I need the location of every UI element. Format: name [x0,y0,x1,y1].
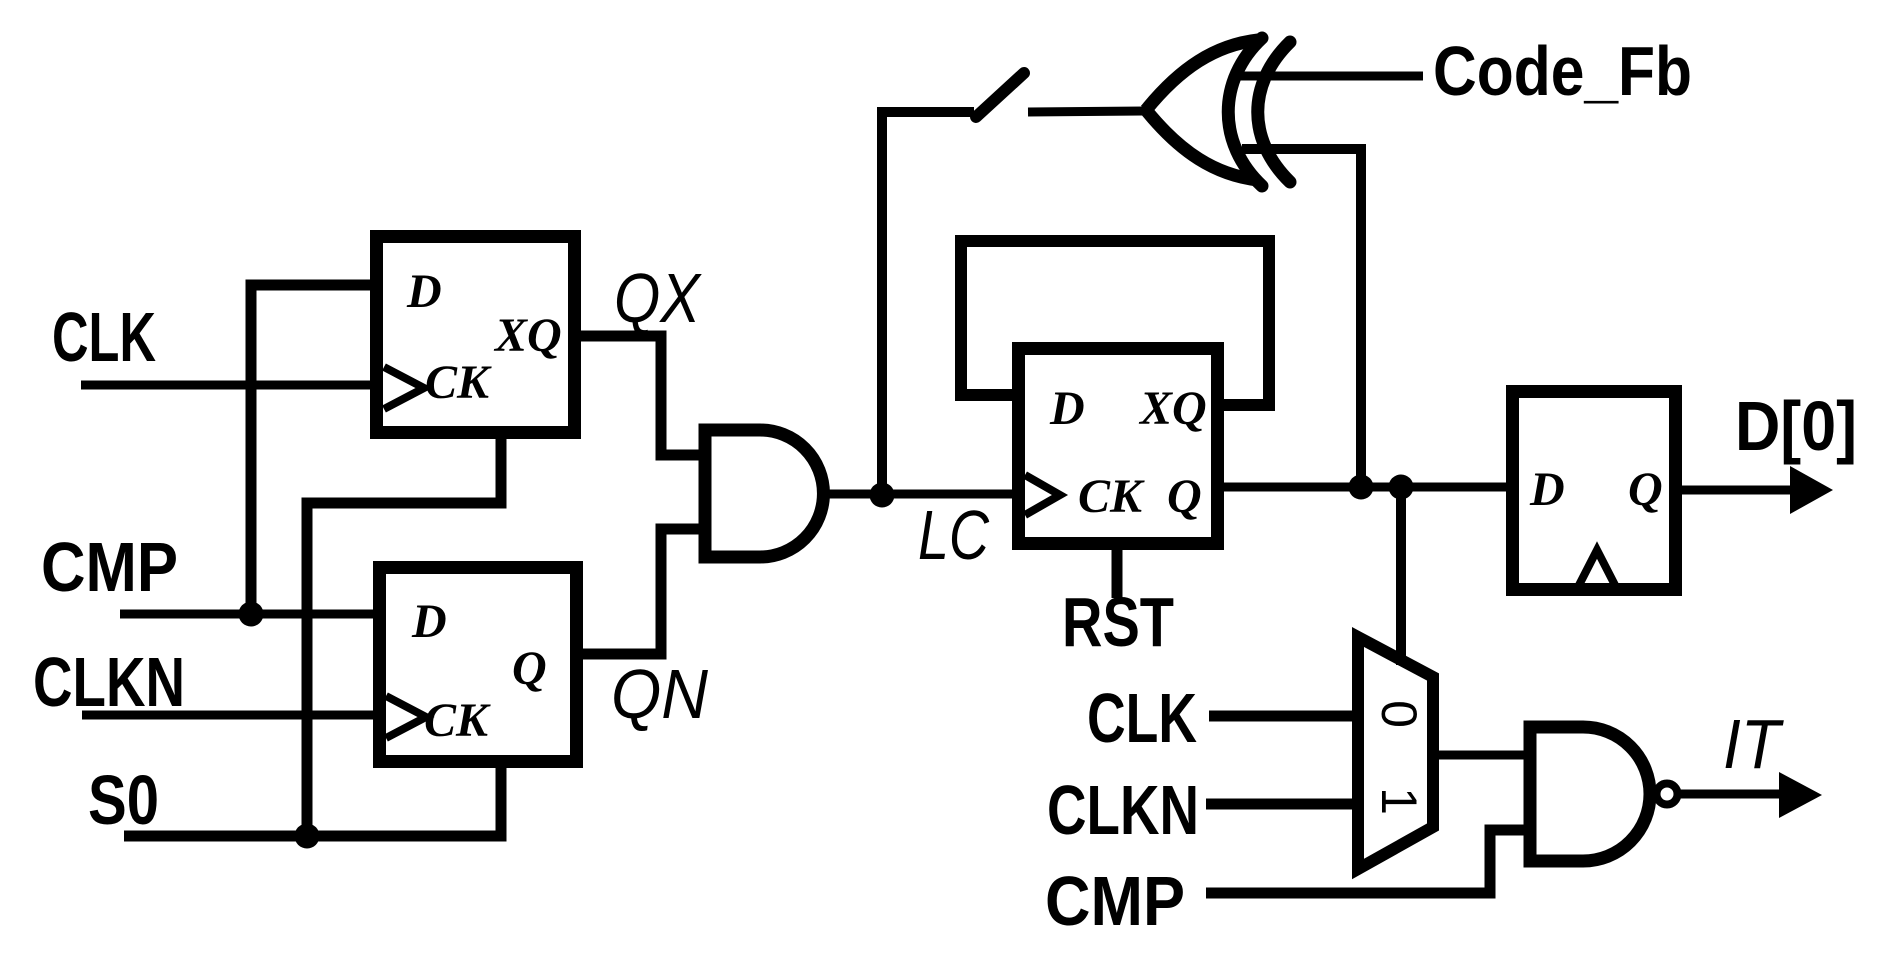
svg-text:CMP: CMP [41,528,178,606]
svg-text:CLKN: CLKN [33,643,185,721]
svg-text:CK: CK [1078,470,1145,523]
wire NAND output [1678,790,1785,799]
wire CMP horizontal to FF2 D [120,610,373,619]
MUX M1 trapezoid [1358,637,1433,869]
svg-text:D: D [406,265,442,318]
wire CLK2 to MUX input 0 [1209,711,1358,722]
wire select from Q node down to MUX [1396,487,1406,665]
svg-text:Code_Fb: Code_Fb [1433,32,1692,110]
flip-flop FF3 clock triangle [1025,475,1060,515]
svg-text:CLKN: CLKN [1047,771,1199,849]
wire QX from FF1 XQ to AND input [581,336,705,455]
svg-text:CLK: CLK [52,298,156,376]
svg-text:D[0]: D[0] [1735,387,1857,465]
svg-text:0: 0 [1371,700,1427,728]
wire CMP branch up to FF1 D [251,285,370,614]
svg-text:XQ: XQ [493,309,562,362]
wire switch to XOR tip [1028,111,1150,112]
svg-text:CMP: CMP [1045,862,1185,940]
junction node Q to XOR [1349,475,1374,500]
wire riser from LC node up to switch [882,112,974,494]
wire MUX output to NAND input [1433,751,1530,760]
wire LC from AND output to FF3 CK [824,490,1012,499]
svg-text:RST: RST [1062,583,1174,661]
svg-text:XQ: XQ [1138,382,1207,435]
wire FF4 Q output [1682,486,1795,495]
flip-flop FF3 box [1019,349,1218,544]
XOR gate U2 (mirrored, points left) [1146,40,1258,110]
junction node on S0 wire [295,824,320,849]
wire CLK to FF1 CK [81,381,370,390]
svg-text:Q: Q [512,642,547,695]
wire CLKN2 to MUX input 1 [1206,799,1358,810]
arrow D[0] output [1790,466,1833,514]
junction node on CMP wire [239,602,264,627]
svg-text:CK: CK [424,694,491,747]
wire S0 to FF2 bottom [124,768,501,836]
arrow IT output [1779,772,1822,818]
junction node LC [870,483,895,508]
svg-text:QX: QX [614,259,702,337]
svg-text:D: D [1529,463,1565,516]
svg-text:Q: Q [1167,470,1202,523]
svg-text:D: D [1049,382,1085,435]
flip-flop FF3 feedback loop wire [961,241,1269,405]
flip-flop FF2 clock triangle [386,696,426,738]
NAND gate U3 [1530,727,1650,861]
svg-text:QN: QN [611,655,708,733]
wire Q from FF3 to FF4 D [1224,483,1506,492]
svg-text:D: D [411,595,447,648]
flip-flop FF1 clock triangle [384,367,424,409]
junction node Q to MUX [1389,475,1414,500]
flip-flop FF1 box [377,237,575,433]
wire S0 branch up to FF1 bottom [307,439,501,836]
svg-text:CLK: CLK [1087,679,1197,757]
flip-flop FF4 box [1513,392,1676,590]
svg-text:Q: Q [1628,463,1663,516]
wire XOR bottom input down to Q node [1242,149,1361,487]
AND gate U1 [705,430,823,557]
wire RST stub [1112,550,1123,598]
wire QN from FF2 Q to AND input [583,529,705,654]
NAND gate U3 bubble [1657,784,1678,805]
flip-flop FF2 box [380,568,577,762]
wire XOR top input to Code_Fb [1240,72,1423,81]
svg-text:1: 1 [1371,787,1427,815]
svg-text:S0: S0 [88,761,159,839]
flip-flop FF4 clock triangle [1577,550,1617,589]
svg-text:CK: CK [425,356,492,409]
svg-text:IT: IT [1723,705,1784,783]
switch SW blade [976,73,1024,117]
wire CLKN to FF2 CK [82,711,373,720]
wire CMP2 to NAND input [1206,830,1530,893]
svg-text:LC: LC [918,496,989,574]
